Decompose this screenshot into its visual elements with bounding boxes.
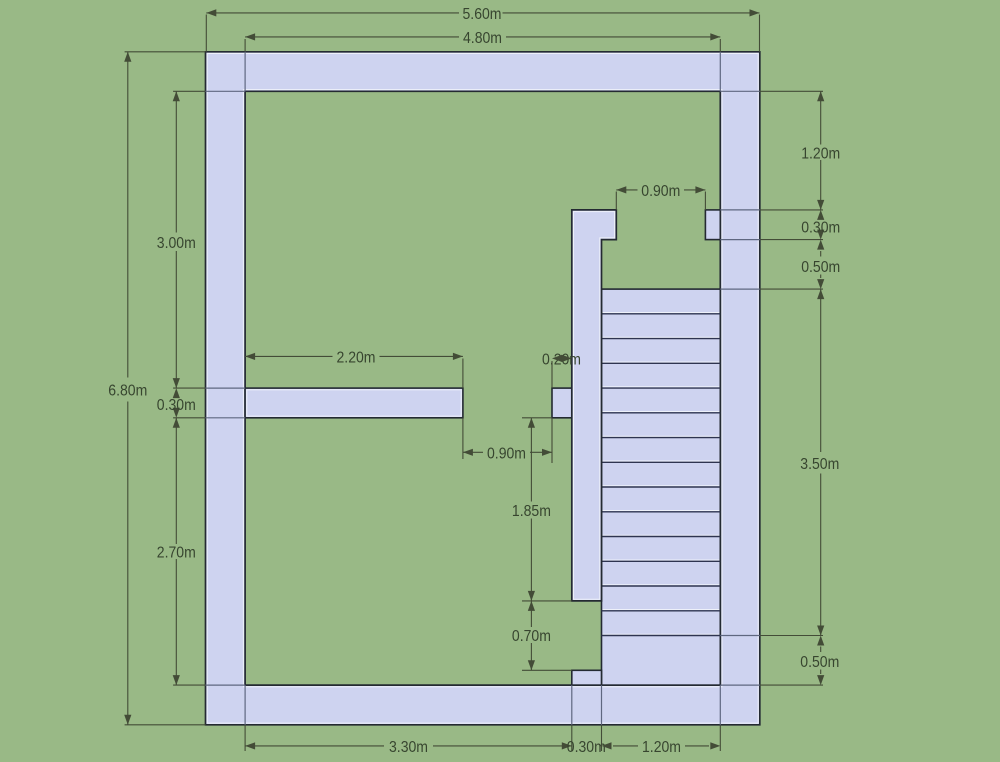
svg-text:0.30m: 0.30m	[567, 739, 606, 756]
outer wall ring	[206, 52, 760, 725]
interior wall highlight	[247, 390, 461, 416]
dimension 1.20m bottom	[613, 745, 709, 747]
stairwell wall	[572, 210, 617, 601]
wall highlight outer ring	[207, 54, 758, 724]
mid stub wall	[552, 388, 572, 418]
dimension 0.30m bottom	[567, 685, 606, 756]
dimension 0.30m left	[157, 388, 245, 418]
svg-text:3.50m: 3.50m	[800, 456, 839, 473]
dimension 2.20m	[245, 355, 463, 357]
door jamb piece	[705, 210, 720, 240]
dimension 0.50m bottom right	[720, 636, 839, 686]
stairwell wall bottom stub	[572, 670, 602, 685]
dimension 0.90m top	[616, 189, 705, 191]
svg-text:2.70m: 2.70m	[157, 545, 196, 562]
svg-text:3.00m: 3.00m	[157, 235, 196, 252]
dimension 0.20m	[542, 352, 581, 389]
svg-text:0.50m: 0.50m	[800, 654, 839, 671]
svg-text:1.20m: 1.20m	[642, 739, 681, 756]
svg-text:0.90m: 0.90m	[641, 183, 680, 200]
dimension 2.70m left	[175, 418, 177, 685]
svg-text:0.70m: 0.70m	[512, 628, 551, 645]
dimension 3.00m left	[175, 91, 177, 388]
svg-text:2.20m: 2.20m	[337, 350, 376, 367]
dimension 5.60m top	[206, 12, 759, 14]
dimension 1.20m right	[820, 91, 822, 210]
dimension 4.80m top	[245, 36, 720, 38]
stairwell wall highlight	[574, 212, 615, 600]
svg-text:0.50m: 0.50m	[801, 259, 840, 276]
svg-text:3.30m: 3.30m	[389, 739, 428, 756]
svg-text:1.85m: 1.85m	[512, 503, 551, 520]
dimension 3.30m bottom	[245, 745, 572, 747]
staircase treads	[602, 289, 721, 685]
svg-text:0.30m: 0.30m	[801, 219, 840, 236]
dimension 0.90m middle	[463, 451, 552, 453]
svg-text:0.90m: 0.90m	[487, 446, 526, 463]
svg-text:1.20m: 1.20m	[801, 145, 840, 162]
dimension 1.85m	[530, 418, 532, 601]
svg-text:5.60m: 5.60m	[463, 6, 502, 23]
svg-text:0.30m: 0.30m	[157, 397, 196, 414]
dimension 0.30m right	[720, 210, 840, 240]
svg-text:6.80m: 6.80m	[108, 383, 147, 400]
dimension 6.80m left	[127, 52, 129, 725]
dimension 0.50m right	[720, 240, 840, 290]
dimension 3.50m right	[820, 289, 822, 635]
dimension 0.70m	[530, 601, 532, 670]
interior wall horizontal	[245, 388, 463, 418]
svg-text:4.80m: 4.80m	[463, 30, 502, 47]
